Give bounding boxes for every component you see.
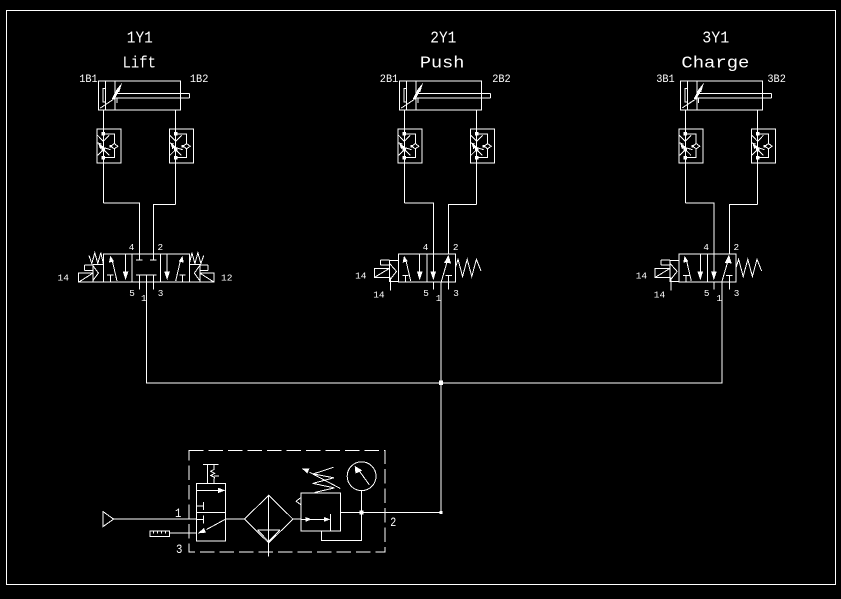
cylinder 2A1 body <box>400 81 482 110</box>
valve 3V1 port 3 stub <box>728 275 730 289</box>
valve 2V1 right box flow path 4-5 <box>432 254 434 272</box>
svg-text:1B2: 1B2 <box>190 74 209 86</box>
wire through 3V2 <box>684 110 686 203</box>
filter drain line <box>268 543 270 557</box>
one-way flow control valve 1V3 body <box>169 129 193 163</box>
cylinder 3A1 cushion seal <box>685 89 688 102</box>
shut-off valve bottom box exhaust path <box>207 519 226 529</box>
3V3 check-valve bypass <box>758 134 769 158</box>
valve 1V1 left return spring <box>89 253 103 264</box>
pressure regulator 0V2 body <box>301 493 340 531</box>
wire port2 branch circuit 3 <box>729 204 757 254</box>
pressure gauge 0Z3 <box>347 462 376 491</box>
gauge stem wire <box>361 491 363 513</box>
svg-text:2B2: 2B2 <box>492 74 511 86</box>
compressed air source <box>103 512 114 527</box>
3V2 throttle <box>680 135 692 155</box>
cylinder 3A1 body <box>680 81 762 110</box>
cylinder 1A1 body <box>99 81 181 110</box>
2V3 adjust arrow <box>470 143 474 145</box>
valve 2V1 right box flow path 1-2 <box>441 259 448 282</box>
cylinder 1A1 adjustable-cushion arrow <box>100 100 113 108</box>
svg-text:3Y1: 3Y1 <box>702 30 729 49</box>
wire port4 branch circuit 3 <box>685 203 714 254</box>
valve 2V1 pilot box <box>389 260 398 281</box>
solenoid 1Y1 left coil <box>79 273 93 282</box>
svg-text:Charge: Charge <box>681 55 749 74</box>
wire regulator output <box>341 511 442 513</box>
wire through 1V3 <box>175 110 177 204</box>
wire port2 branch circuit 1 <box>153 204 175 254</box>
solenoid 1Y2 right pilot rect <box>200 265 208 270</box>
2V3 check valve <box>484 144 491 149</box>
wire source to shut-off valve <box>114 518 197 520</box>
wire supply riser valve2 port1 <box>440 282 442 512</box>
valve 1V1 bottom gallery <box>136 275 157 289</box>
svg-text:1: 1 <box>175 506 182 521</box>
filter/water separator 0Z2 <box>244 495 293 543</box>
valve 1V1 left box blocked port <box>107 275 113 282</box>
one-way flow control valve 1V2 body <box>97 129 121 163</box>
valve 3V1 port 5 stub <box>713 282 715 289</box>
svg-text:5: 5 <box>423 288 429 299</box>
valve 3V1 return spring <box>736 259 762 276</box>
pilot port 14 line valve 3V1 <box>670 278 672 291</box>
3V3 check valve <box>765 144 772 149</box>
3V2 adjust arrow <box>679 143 683 145</box>
muffler 0Z1 <box>150 531 170 536</box>
2V2 check-valve bypass <box>404 134 415 158</box>
valve 3V1 left box flow arrows <box>686 259 691 281</box>
solenoid 3Y1 coil <box>655 268 670 277</box>
svg-text:3B1: 3B1 <box>656 74 675 86</box>
svg-text:Lift: Lift <box>123 55 156 74</box>
1V2 check-valve bypass <box>103 134 114 158</box>
svg-text:2: 2 <box>734 242 740 253</box>
cylinder 2A1 piston rod <box>416 94 490 104</box>
1V3 throttle <box>170 135 182 155</box>
2V2 check valve <box>412 144 419 149</box>
valve 1V1 right box blocked port <box>179 275 185 282</box>
wire port4 branch circuit 2 <box>404 203 433 254</box>
valve 3V1 right box blocked port 3 <box>726 274 733 276</box>
junction manifold <box>439 381 443 385</box>
wire through 3V3 <box>757 110 759 204</box>
service unit enclosure (dashed) <box>189 450 385 552</box>
wire muffler to shut-off valve <box>169 532 196 534</box>
svg-text:5: 5 <box>129 288 135 299</box>
1V3 check-valve bypass <box>176 134 187 158</box>
regulator pilot chevron <box>296 497 301 505</box>
wire through 2V3 <box>476 110 478 204</box>
svg-text:3: 3 <box>734 288 740 299</box>
svg-text:12: 12 <box>221 273 233 284</box>
valve 1V1 port 2 stub <box>150 254 157 260</box>
pilot port 14 line valve 2V1 <box>389 278 391 291</box>
cylinder 1A1 piston <box>106 81 116 110</box>
one-way flow control valve 2V3 body <box>470 129 494 163</box>
svg-text:14: 14 <box>654 290 666 301</box>
1V2 check valve <box>111 144 118 149</box>
wire filter to regulator <box>293 518 301 520</box>
wire port4 branch circuit 1 <box>103 203 139 254</box>
regulator adjustment spring <box>313 467 335 492</box>
1V2 adjust arrow <box>97 143 101 145</box>
svg-text:3B2: 3B2 <box>767 74 786 86</box>
3V2 check valve <box>693 144 700 149</box>
solenoid 3Y1 pilot rect <box>661 260 670 265</box>
cylinder 2A1 adjustable-cushion arrow <box>401 100 414 108</box>
valve 1V1 left pilot box <box>93 264 103 281</box>
valve 3V1 left box blocked port <box>683 275 689 282</box>
wire shut-off valve to filter <box>225 518 244 520</box>
valve 2V1 port 3 stub <box>448 275 450 289</box>
wire through 1V2 <box>102 110 104 203</box>
1V3 adjust arrow <box>169 143 173 145</box>
valve 2V1 port 5 stub <box>432 282 434 289</box>
3V3 adjust arrow <box>751 143 755 145</box>
1V2 junctions <box>102 132 106 136</box>
svg-text:5: 5 <box>704 288 710 299</box>
svg-text:3: 3 <box>176 542 182 557</box>
cylinder 1A1 piston rod <box>115 94 189 104</box>
svg-text:2Y1: 2Y1 <box>430 30 456 49</box>
svg-text:2: 2 <box>453 242 459 253</box>
svg-text:3: 3 <box>453 288 459 299</box>
shut-off valve 0V1 body <box>197 483 226 541</box>
shut-off valve bottom box inlet stub <box>197 516 204 524</box>
3V2 check-valve bypass <box>685 134 696 158</box>
one-way flow control valve 3V2 body <box>679 129 703 163</box>
svg-text:2: 2 <box>158 242 164 253</box>
svg-text:14: 14 <box>355 271 367 282</box>
1V3 junctions <box>174 132 178 136</box>
2V3 junctions <box>475 132 479 136</box>
one-way flow control valve 2V2 body <box>398 129 422 163</box>
2V3 throttle <box>471 135 483 155</box>
valve 1V1 right return spring <box>189 253 203 264</box>
3V3 junctions <box>756 132 760 136</box>
svg-text:14: 14 <box>636 271 648 282</box>
3V3 throttle <box>752 135 764 155</box>
cylinder 3A1 piston rod <box>697 94 771 104</box>
cylinder 3A1 piston <box>688 81 698 110</box>
cylinder 1A1 cushion seal <box>103 89 106 102</box>
valve 1V1 right box flow arrows <box>176 259 181 281</box>
svg-text:2B1: 2B1 <box>380 74 399 86</box>
wire through 2V2 <box>403 110 405 203</box>
svg-text:4: 4 <box>423 242 429 253</box>
2V2 adjust arrow <box>398 143 402 145</box>
valve 2V1 left box blocked port <box>403 275 409 282</box>
valve 3V1 right box flow path 4-5 <box>713 254 715 272</box>
cylinder 3A1 adjustable-cushion arrow <box>682 100 695 108</box>
svg-text:4: 4 <box>129 242 135 253</box>
solenoid 2Y1 coil <box>374 268 389 277</box>
solenoid 2Y1 pilot rect <box>380 260 389 265</box>
solenoid 1Y2 right coil <box>200 273 214 282</box>
valve 2V1 right box blocked port 3 <box>445 274 452 276</box>
junction supply <box>439 511 442 514</box>
svg-text:1B1: 1B1 <box>79 74 98 86</box>
svg-text:3: 3 <box>158 288 164 299</box>
valve 3V1 right box flow path 1-2 <box>722 259 729 282</box>
svg-text:14: 14 <box>373 290 385 301</box>
wire valve1 port1 to manifold <box>146 275 441 383</box>
svg-text:Push: Push <box>420 55 465 74</box>
junction gauge <box>360 510 364 514</box>
wire manifold to valve3 port1 <box>441 282 722 383</box>
valve 3V1 body 5/2 <box>679 254 736 282</box>
regulator feedback pilot line <box>322 512 362 540</box>
solenoid 1Y1 left pilot rect <box>85 265 93 270</box>
valve 2V1 body 5/2 <box>399 254 456 282</box>
regulator flow path arrows <box>301 518 327 520</box>
2V3 check-valve bypass <box>477 134 488 158</box>
valve 1V1 port 4 stub <box>136 254 143 260</box>
valve 2V1 return spring <box>455 259 481 276</box>
valve 3V1 pilot box <box>670 260 679 281</box>
shut-off valve detent/spring actuator <box>203 464 219 483</box>
valve 2V1 left box flow arrows <box>406 259 411 281</box>
valve 1V1 body 5/2 <box>103 254 189 282</box>
wire port2 branch circuit 2 <box>449 204 477 254</box>
1V2 throttle <box>98 135 110 155</box>
3V2 junctions <box>684 132 688 136</box>
2V2 throttle <box>399 135 411 155</box>
1V3 check valve <box>183 144 190 149</box>
shut-off valve top box blocked stub <box>197 502 204 510</box>
one-way flow control valve 3V3 body <box>751 129 775 163</box>
shut-off valve top box pass arrow <box>197 489 220 491</box>
svg-text:1Y1: 1Y1 <box>127 30 153 49</box>
valve 1V1 left box flow arrows <box>112 259 117 281</box>
cylinder 2A1 piston <box>407 81 417 110</box>
svg-text:14: 14 <box>58 273 70 284</box>
cylinder 2A1 cushion seal <box>404 89 407 102</box>
2V2 junctions <box>403 132 407 136</box>
svg-text:4: 4 <box>703 242 709 253</box>
valve 1V1 right pilot box <box>189 264 199 281</box>
svg-text:2: 2 <box>390 515 396 530</box>
regulator adjustment arrow <box>310 472 341 488</box>
